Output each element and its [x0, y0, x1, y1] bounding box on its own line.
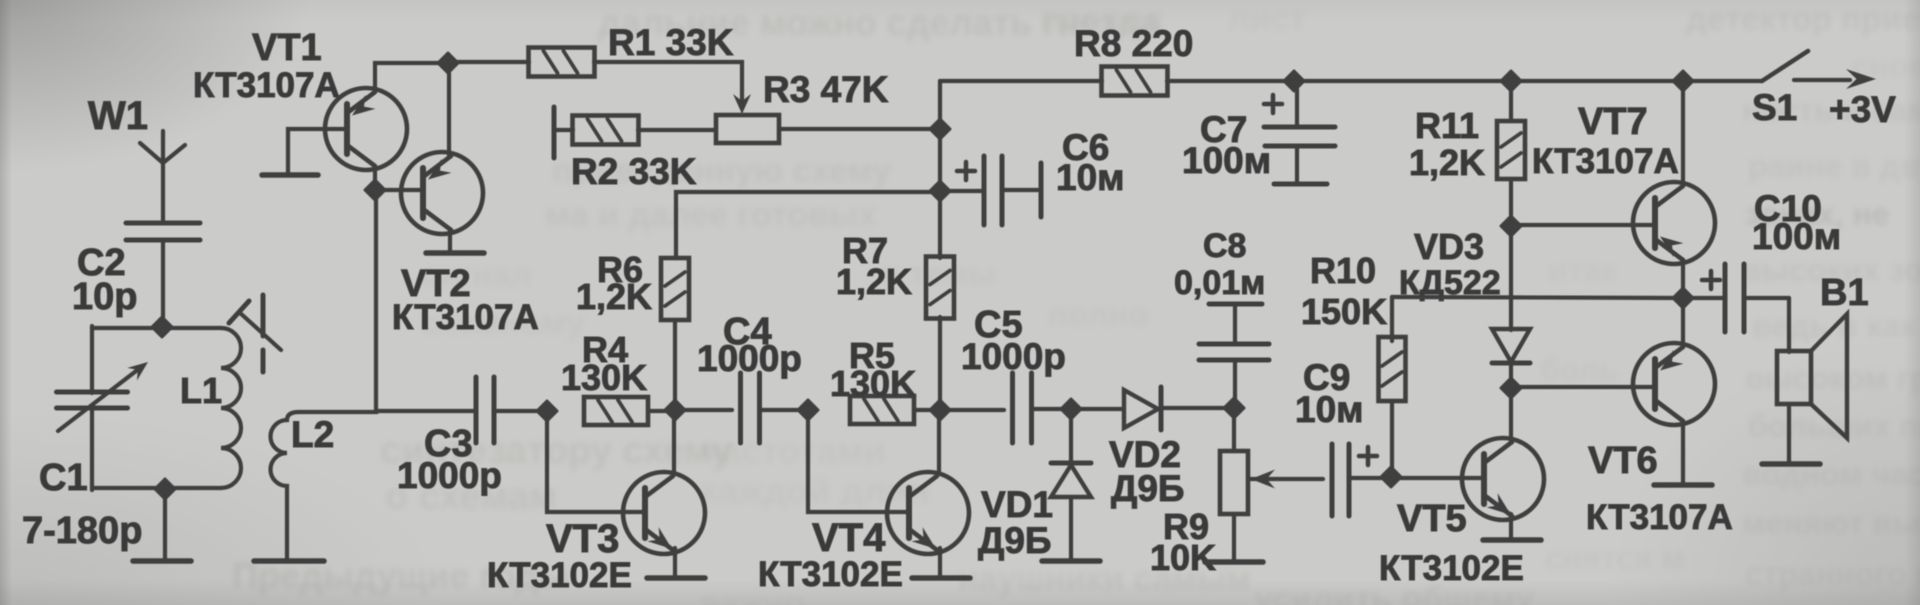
- wire VT1 base to ground: [288, 129, 347, 172]
- capacitor C7 polarized: [1264, 81, 1335, 184]
- wire R2 to R3: [638, 128, 716, 132]
- wire node to R1: [448, 60, 529, 64]
- svg-text:VT5: VT5: [1397, 498, 1467, 540]
- ground VT5: [1483, 537, 1541, 543]
- transistor VT7: [1633, 182, 1715, 264]
- wire VD3 to VT6 base node: [1509, 363, 1513, 389]
- wire C3 to VT3 base node: [494, 409, 547, 413]
- wire VT3 emitter to ground: [673, 548, 677, 576]
- svg-text:7-180p: 7-180p: [22, 510, 142, 552]
- svg-text:R3 47K: R3 47K: [763, 69, 889, 110]
- resistor R1: [529, 48, 595, 77]
- wire VT1 collector to VT2 base node: [373, 167, 377, 191]
- wire VT6 base: [1511, 385, 1656, 389]
- transistor VT3: [623, 472, 705, 554]
- svg-text:КТ3102Е: КТ3102Е: [1379, 549, 1524, 588]
- diode VD1: [1051, 463, 1091, 497]
- terminal stub left of R2: [552, 107, 557, 158]
- wire R7 bottom: [938, 317, 942, 411]
- potentiometer R9: [1220, 451, 1248, 514]
- ground R9: [1205, 559, 1263, 565]
- svg-text:R11: R11: [1415, 105, 1479, 146]
- wire R10 bottom: [1390, 401, 1394, 478]
- ground speaker: [1762, 461, 1820, 467]
- node R11 tap: [1501, 71, 1521, 91]
- wire tank left branch lower: [90, 407, 94, 490]
- wire VT5 collector: [1509, 388, 1513, 441]
- ground VT4: [912, 575, 970, 581]
- node VT6 base junction: [1501, 378, 1521, 398]
- svg-text:КТ3107А: КТ3107А: [193, 66, 340, 105]
- speaker B1: [1777, 314, 1847, 438]
- wire R6 top feed: [676, 192, 938, 258]
- wire VT7 collector to rail: [1681, 81, 1685, 186]
- wire VT2 base: [375, 188, 423, 192]
- wire collector node to C4: [675, 408, 732, 412]
- wiper arrow of R9: [1251, 470, 1275, 489]
- wire VT1 emitter to top node: [375, 63, 448, 91]
- svg-text:КТ3107А: КТ3107А: [1532, 142, 1679, 181]
- resistor R4: [584, 397, 648, 425]
- wire tank left branch upper: [90, 326, 94, 393]
- svg-text:VT4: VT4: [812, 516, 886, 560]
- resistor R8: [1102, 67, 1168, 96]
- wire VD1 top: [1069, 409, 1073, 462]
- wire rail R8 to switch: [1167, 79, 1762, 83]
- wire antenna lead-in W1 to C2: [161, 131, 165, 223]
- node VT7 base junction: [1501, 216, 1521, 236]
- svg-text:1,2K: 1,2K: [836, 261, 912, 302]
- wire R6 bottom: [673, 320, 677, 411]
- transistor VT2: [401, 152, 483, 234]
- node tank top junction: [152, 317, 172, 337]
- node C7 tap: [1284, 71, 1304, 91]
- wire R10 top: [1390, 297, 1394, 341]
- transistor VT5: [1462, 438, 1544, 520]
- wire to VT7 base: [1511, 223, 1656, 227]
- capacitor C3: [474, 377, 479, 443]
- wire VT6 collector down: [1681, 421, 1685, 483]
- node output junction: [1673, 288, 1693, 308]
- svg-text:КТ3107А: КТ3107А: [392, 298, 539, 337]
- ground VD1: [1042, 558, 1100, 564]
- wire collector node to C5: [940, 408, 1004, 412]
- node VT4 base junction: [798, 400, 818, 420]
- svg-text:VT3: VT3: [546, 517, 619, 561]
- wire VT3 collector: [672, 410, 676, 474]
- svg-text:100м: 100м: [1182, 140, 1271, 181]
- wire VD3 chain upper: [1509, 226, 1513, 330]
- node VT1-VT2-R1 junction: [438, 53, 458, 73]
- capacitor C9 polarized: [1330, 444, 1335, 516]
- wire R4 to collector node: [648, 409, 675, 413]
- paper background with bleed-through text: [598, 2, 1160, 44]
- wire stub to R2: [554, 128, 573, 132]
- svg-text:100м: 100м: [1752, 216, 1841, 257]
- svg-text:0,01м: 0,01м: [1174, 264, 1265, 302]
- plus sign C9: [1359, 447, 1377, 465]
- svg-text:R8 220: R8 220: [1074, 23, 1193, 64]
- transistor VT4: [887, 472, 969, 554]
- wire VD1 to ground: [1069, 497, 1073, 559]
- svg-text:1,2K: 1,2K: [576, 276, 652, 317]
- node VT3 collector junction: [665, 400, 685, 420]
- wire R9 wiper to C9: [1251, 477, 1323, 481]
- svg-text:VD3: VD3: [1414, 226, 1484, 267]
- svg-text:VT6: VT6: [1588, 440, 1658, 482]
- node VT5 base junction: [1381, 467, 1401, 487]
- wire VT4 collector: [937, 410, 941, 474]
- wire R1 to R3 wiper: [594, 62, 742, 99]
- node VT1 collector / VT2 base: [365, 180, 385, 200]
- wire tank to ground: [163, 489, 167, 559]
- wire VT1-VT2 node down to L2/C3 node: [374, 190, 378, 412]
- resistor R7: [926, 257, 954, 319]
- svg-text:VT7: VT7: [1578, 101, 1648, 143]
- resistor R6: [661, 258, 689, 320]
- svg-text:130K: 130K: [830, 363, 916, 404]
- wire C10 to speaker: [1787, 298, 1791, 352]
- svg-text:КТ3107А: КТ3107А: [1586, 498, 1733, 537]
- transistor VT6: [1633, 343, 1715, 425]
- trimmer slug symbol of L1: [229, 295, 281, 372]
- resistor R5: [850, 396, 914, 424]
- svg-text:150K: 150K: [1301, 291, 1387, 332]
- node C6 branch: [930, 181, 950, 201]
- antenna W1: [140, 143, 185, 163]
- svg-text:L1: L1: [180, 370, 222, 411]
- wire VT4 base drop: [808, 410, 908, 512]
- switch S1: [1762, 51, 1850, 81]
- svg-text:Д9Б: Д9Б: [1111, 468, 1185, 509]
- plus sign C6: [957, 162, 975, 180]
- wire supply rail top: [940, 79, 1102, 83]
- plus sign C7: [1264, 95, 1282, 113]
- node VT3 base junction: [537, 401, 557, 421]
- resistor R10: [1379, 337, 1406, 401]
- wire VT5 base: [1391, 476, 1484, 480]
- transistor VT1: [325, 88, 407, 170]
- svg-text:1000p: 1000p: [697, 338, 802, 379]
- diode VD2: [1124, 387, 1161, 430]
- wire R9 top: [1232, 408, 1236, 451]
- wire C2 to tank circuit top: [161, 240, 165, 327]
- ground L2: [254, 558, 324, 564]
- ground tank: [133, 558, 191, 564]
- svg-text:КТ3102Е: КТ3102Е: [487, 556, 632, 595]
- wire C5 to VD1 node: [1032, 407, 1071, 411]
- ground VT2 collector: [426, 250, 484, 256]
- svg-text:R10: R10: [1310, 250, 1376, 291]
- wire speaker to ground: [1787, 404, 1791, 462]
- node detector output junction: [1224, 398, 1244, 418]
- wiper arrow of R3: [733, 94, 751, 114]
- resistor R11: [1497, 121, 1525, 179]
- wire VT4 emitter to ground: [938, 548, 942, 576]
- wire C6 lead: [940, 189, 983, 193]
- svg-text:КТ3102Е: КТ3102Е: [758, 555, 903, 594]
- svg-text:10p: 10p: [72, 276, 137, 318]
- svg-text:+3V: +3V: [1829, 89, 1896, 130]
- plus sign C10: [1702, 271, 1720, 289]
- svg-text:1000p: 1000p: [961, 336, 1066, 377]
- svg-text:VT1: VT1: [252, 27, 322, 69]
- wire C4 to VT4 base node: [760, 408, 808, 412]
- capacitor C2: [126, 221, 200, 226]
- wire R9 to ground: [1232, 514, 1236, 560]
- resistor R2: [573, 116, 639, 145]
- wire R5 to collector node: [914, 408, 940, 412]
- svg-text:10м: 10м: [1295, 389, 1364, 430]
- inductor L1: [221, 328, 241, 488]
- capacitor C5: [1010, 373, 1015, 443]
- wire VT7 emitter to output node: [1681, 260, 1685, 298]
- ground VT3: [647, 575, 705, 581]
- svg-text:R2 33K: R2 33K: [571, 151, 697, 192]
- wire VD2 to detector node: [1161, 406, 1234, 410]
- variable capacitor C1: [57, 362, 149, 431]
- node VD1 junction: [1061, 399, 1081, 419]
- capacitor C4: [738, 373, 743, 443]
- wire VD1 node to VD2: [1071, 407, 1124, 411]
- capacitor C6 polarized: [984, 156, 1041, 225]
- wire C9 to VT5 base node: [1349, 476, 1391, 480]
- svg-text:VD1: VD1: [981, 484, 1053, 525]
- wire R3 output to supply node: [779, 127, 938, 131]
- node VT7 top tap: [1673, 71, 1693, 91]
- wire output feedback line: [1392, 297, 1683, 298]
- capacitor C10 polarized: [1683, 264, 1789, 332]
- svg-text:Д9Б: Д9Б: [978, 520, 1052, 561]
- svg-text:1000p: 1000p: [397, 455, 502, 496]
- wire VT2 emitter to top node: [447, 63, 451, 156]
- svg-text:C8: C8: [1203, 227, 1246, 265]
- svg-text:L2: L2: [291, 414, 334, 455]
- svg-text:W1: W1: [88, 94, 148, 138]
- svg-text:1,2K: 1,2K: [1409, 142, 1485, 183]
- ground VT1 base: [262, 172, 318, 178]
- svg-text:10K: 10K: [1150, 537, 1216, 578]
- wire R11 top: [1509, 81, 1513, 121]
- arrow to +3V: [1846, 69, 1876, 89]
- wire VT2 collector down: [448, 231, 452, 251]
- svg-text:S1: S1: [1752, 87, 1797, 128]
- svg-text:B1: B1: [1820, 272, 1869, 314]
- svg-text:C1: C1: [39, 457, 88, 499]
- ground VT6: [1654, 482, 1712, 488]
- wire VT6 emitter up: [1681, 298, 1685, 347]
- node R3 output: [930, 119, 950, 139]
- capacitor C8: [1199, 304, 1269, 408]
- svg-text:R1 33K: R1 33K: [608, 22, 734, 63]
- inductor L2: [271, 412, 378, 559]
- wire L2 node to C3: [377, 409, 476, 413]
- node tank bottom junction: [155, 479, 175, 499]
- wire tank bottom rail: [92, 486, 221, 490]
- wire supply vertical: [938, 81, 942, 258]
- wire VT5 emitter to ground: [1509, 514, 1513, 538]
- diode VD3: [1492, 329, 1530, 363]
- wire tank top rail: [92, 326, 221, 330]
- wire VT3 base drop: [547, 411, 645, 512]
- svg-text:130K: 130K: [561, 357, 647, 398]
- svg-text:10м: 10м: [1056, 157, 1125, 198]
- potentiometer R3: [716, 115, 779, 143]
- node VT4 collector junction: [930, 400, 950, 420]
- wire R11 bottom: [1509, 179, 1513, 226]
